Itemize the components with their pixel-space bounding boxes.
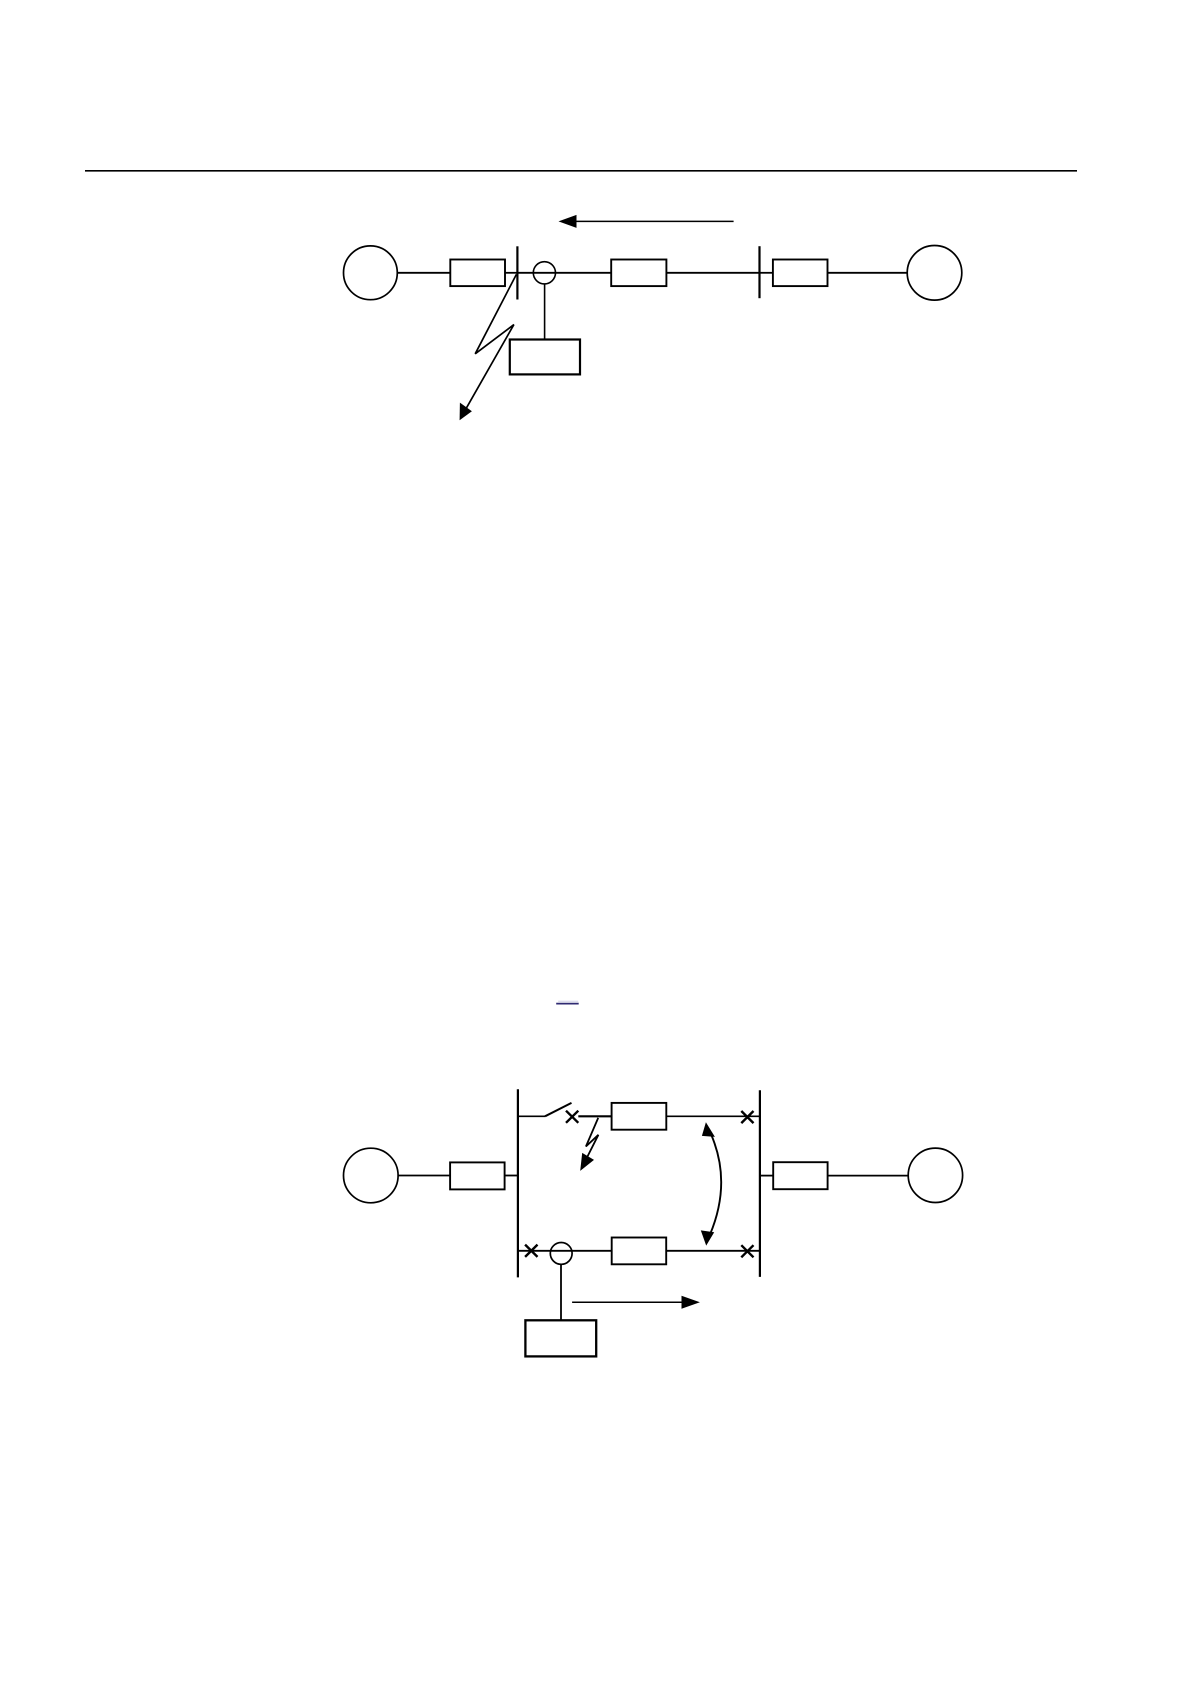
remote source impedance box ZB (diagram 2) xyxy=(773,1162,827,1189)
line 1 impedance box (top) xyxy=(612,1103,667,1130)
CT (current transformer, diagram 2) xyxy=(550,1243,572,1265)
wire G1 to source impedance box xyxy=(397,272,450,274)
generator G1 (left source, diagram 2) xyxy=(344,1148,399,1203)
faint underline above hyperlink dash xyxy=(558,1000,578,1002)
forward current direction arrow (pointing right) xyxy=(572,1296,700,1309)
wire line box to bus B xyxy=(666,272,759,274)
breaker X (bottom line, left) xyxy=(525,1245,537,1257)
wire X to line 1 box (fault infeed, thick) xyxy=(578,1115,611,1117)
CT lead wire to relay (diagram 2) xyxy=(560,1264,562,1320)
generator G2 (right source, diagram 2) xyxy=(908,1148,962,1202)
CT lead wire to relay (diagram 1) xyxy=(544,284,546,340)
fault lightning arrow (diagram 1) xyxy=(460,274,517,420)
bus A (diagram 2 left busbar) xyxy=(517,1089,519,1277)
generator G1 (left source, diagram 1) xyxy=(344,246,398,300)
bus A (diagram 1 left busbar) xyxy=(516,246,518,299)
wire source box to bus A (diagram 2) xyxy=(505,1175,518,1177)
remote source impedance box ZB xyxy=(773,260,828,287)
line impedance box ZL xyxy=(611,260,666,287)
wire G1 to source box (diagram 2) xyxy=(398,1175,450,1177)
source impedance box ZA xyxy=(450,260,505,287)
wire bus B to remote impedance box xyxy=(760,272,773,274)
wire box ZA to bus A xyxy=(505,272,517,274)
header rule xyxy=(85,170,1077,172)
relay box (diagram 1) xyxy=(510,340,580,375)
line 2 impedance box (bottom) xyxy=(612,1238,667,1265)
wire line 1 box to right breaker X xyxy=(666,1115,760,1117)
wire remote box to generator G2 xyxy=(828,272,908,274)
open breaker blade (top line) xyxy=(545,1103,572,1116)
wire line 2 box to right breaker X xyxy=(666,1250,760,1252)
bus B (diagram 1 right busbar) xyxy=(758,246,760,298)
breaker X (top line, right) xyxy=(741,1111,753,1123)
generator G2 (right source, diagram 1) xyxy=(907,245,962,300)
breaker X (bottom line, right) xyxy=(741,1245,753,1257)
wire bus A through CT to line impedance box xyxy=(517,272,611,274)
reverse current direction arrow (pointing left) xyxy=(559,215,734,228)
breaker X (top line, left) xyxy=(566,1111,578,1123)
CT (current transformer, diagram 1) xyxy=(533,262,555,284)
hyperlink dash (navy) xyxy=(556,1003,579,1005)
source impedance box ZA (diagram 2) xyxy=(450,1162,505,1189)
wire remote box to generator G2 (diagram 2) xyxy=(828,1175,909,1177)
wire stub bus A to open breaker (top line) xyxy=(518,1115,545,1117)
fault lightning arrow (diagram 2, on line 1) xyxy=(580,1118,598,1171)
relay box (diagram 2) xyxy=(525,1320,596,1356)
current reversal curved arrow xyxy=(701,1122,721,1245)
bus B (diagram 2 right busbar) xyxy=(759,1090,761,1277)
wire bus A to bottom line through X and CT xyxy=(518,1250,612,1252)
wire bus B to remote box (diagram 2) xyxy=(760,1175,773,1177)
